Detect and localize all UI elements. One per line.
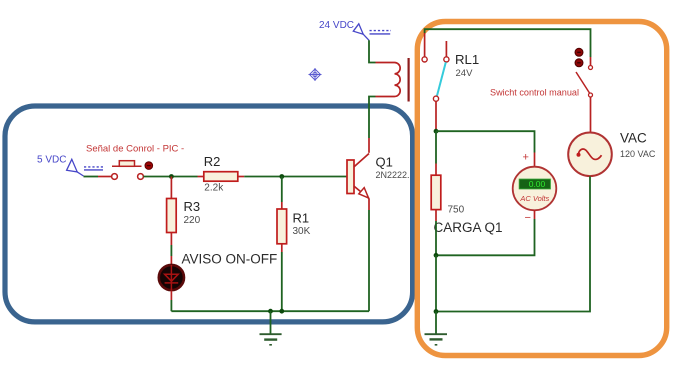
svg-text:120 VAC: 120 VAC [620, 149, 656, 159]
svg-text:AC Volts: AC Volts [519, 194, 549, 203]
wire bottom rail left [171, 310, 369, 312]
voltmeter pin bottom [534, 210, 536, 219]
relay pole pin [435, 101, 437, 131]
LED AVISO ON-OFF [159, 265, 184, 290]
wire junction to R1 [281, 177, 283, 203]
svg-text:5 VDC: 5 VDC [37, 155, 66, 166]
resistor R2 pin left [198, 176, 204, 178]
resistor CARGA pin top [435, 164, 437, 176]
label R1 [293, 210, 310, 225]
svg-text:R3: R3 [184, 199, 201, 214]
wire node to ground rail [435, 255, 437, 311]
svg-text:−: − [525, 212, 531, 224]
power terminal 5 VDC symbol [67, 159, 103, 176]
manual switch red dot lower [575, 59, 583, 67]
relay RL1 coil [395, 63, 401, 97]
node junction carga/voltmeter [434, 253, 439, 258]
wire junction to voltmeter [436, 131, 535, 152]
wire coil to Q1 collector [369, 97, 376, 139]
svg-text:2N2222.: 2N2222. [376, 170, 410, 180]
relay coil pin top [376, 62, 395, 64]
relay contact terminal NC [444, 57, 449, 62]
svg-text:R1: R1 [293, 210, 310, 225]
voltmeter pin top [534, 153, 536, 168]
svg-text:750: 750 [448, 204, 465, 215]
manual switch red dot upper [575, 48, 583, 56]
manual switch lever [576, 72, 590, 93]
svg-text:30K: 30K [293, 226, 311, 237]
node junction button/R3 [169, 174, 174, 179]
push button cap [112, 161, 142, 167]
label RL1 [455, 52, 479, 67]
value 750 [448, 204, 465, 215]
Q1 emitter pin [368, 199, 370, 211]
value 2N2222 [376, 170, 410, 180]
power terminal 24 VDC label [319, 20, 354, 31]
wire top rail right box [425, 29, 591, 57]
relay lever (cyan) [437, 62, 446, 96]
label VAC [620, 131, 647, 146]
value 120 VAC [620, 149, 656, 159]
ground right stub [435, 312, 437, 334]
node junction relay/carga [434, 129, 439, 134]
value 24V [456, 68, 474, 79]
relay coil pin bottom [376, 96, 395, 98]
relay contact terminal left [422, 57, 427, 62]
svg-text:Señal de Conrol - PIC -: Señal de Conrol - PIC - [86, 143, 184, 154]
svg-text:2.2k: 2.2k [204, 183, 224, 194]
label R2 [204, 154, 221, 169]
AC source VAC [568, 133, 612, 177]
LED pin top [170, 256, 172, 265]
svg-text:24V: 24V [456, 68, 474, 79]
resistor CARGA Q1 [431, 175, 441, 209]
svg-text:220: 220 [184, 215, 201, 226]
push button actuator dot [145, 162, 153, 170]
relay contact terminal pole [433, 96, 438, 101]
resistor CARGA pin bottom [435, 210, 437, 221]
wire 5VDC to button [84, 176, 99, 178]
button pin left [98, 176, 112, 178]
wire junction to carga [435, 131, 437, 163]
voltmeter minus sign [525, 212, 531, 224]
svg-text:0.00: 0.00 [529, 179, 546, 189]
wire carga to node [435, 221, 437, 255]
voltmeter U1 [513, 167, 557, 211]
resistor R3 pin bottom [170, 233, 172, 246]
relay contact pin left [424, 33, 426, 57]
wire button to R2 [143, 176, 197, 178]
svg-text:Swicht control manual: Swicht control manual [490, 88, 579, 98]
wire LED to bottom rail [170, 300, 172, 311]
svg-text:Q1: Q1 [376, 154, 393, 169]
manual switch terminal bottom [589, 93, 593, 97]
label AVISO ON-OFF [182, 251, 278, 266]
svg-text:+: + [523, 151, 529, 163]
relay contact stub NC [445, 41, 447, 57]
label Swicht control manual [490, 88, 579, 98]
resistor R1 pin bottom [281, 244, 283, 252]
resistor R1 pin top [281, 202, 283, 209]
Q1 collector pin [368, 138, 370, 153]
svg-text:RL1: RL1 [455, 52, 479, 67]
power terminal 24 VDC symbol [353, 24, 391, 41]
wire voltmeter to node [436, 219, 535, 255]
wire 24VDC to relay coil [369, 40, 376, 62]
svg-text:R2: R2 [204, 154, 221, 169]
value 220 [184, 215, 201, 226]
node junction rail/R1 top [279, 174, 284, 179]
value 2.2k [204, 183, 224, 194]
node junction R1 bottom [279, 309, 284, 314]
ground left symbol [260, 334, 282, 345]
origin marker (blue crosshair) [309, 68, 322, 81]
orange enclosure box [417, 22, 666, 356]
push button terminal right [138, 174, 144, 180]
resistor R2 [204, 172, 238, 182]
wire emitter to bottom rail [368, 210, 370, 311]
label R3 [184, 199, 201, 214]
resistor R3 [167, 199, 177, 233]
label CARGA Q1 [434, 220, 503, 235]
svg-text:AVISO ON-OFF: AVISO ON-OFF [182, 251, 278, 266]
resistor R3 pin top [170, 177, 172, 199]
wire VAC to bottom rail [436, 176, 590, 311]
label Q1 [376, 154, 393, 169]
wire R2 to Q1 base [244, 176, 347, 178]
blue enclosure box [5, 106, 413, 322]
wire R3 to LED [170, 245, 172, 256]
ground left stub [270, 311, 272, 334]
relay core bar [408, 58, 410, 102]
power terminal 5 VDC label [37, 155, 66, 166]
push button terminal left [112, 174, 118, 180]
node junction ground [268, 309, 273, 314]
ground right symbol [425, 334, 448, 345]
voltmeter plus sign [523, 151, 529, 163]
wire R1 to bottom rail [281, 252, 283, 311]
transistor Q1 [347, 154, 369, 199]
LED pin bottom [170, 291, 172, 301]
svg-text:24 VDC: 24 VDC [319, 20, 354, 31]
value 30K [293, 226, 311, 237]
manual switch pin top [590, 57, 592, 66]
resistor R2 pin right [238, 176, 244, 178]
label Senal de Conrol [86, 143, 184, 154]
manual switch to VAC pin [590, 97, 592, 133]
node junction bottom right [434, 309, 439, 314]
manual switch terminal top [589, 66, 593, 70]
svg-text:VAC: VAC [620, 131, 647, 146]
resistor R1 [277, 209, 287, 244]
svg-text:CARGA Q1: CARGA Q1 [434, 220, 503, 235]
